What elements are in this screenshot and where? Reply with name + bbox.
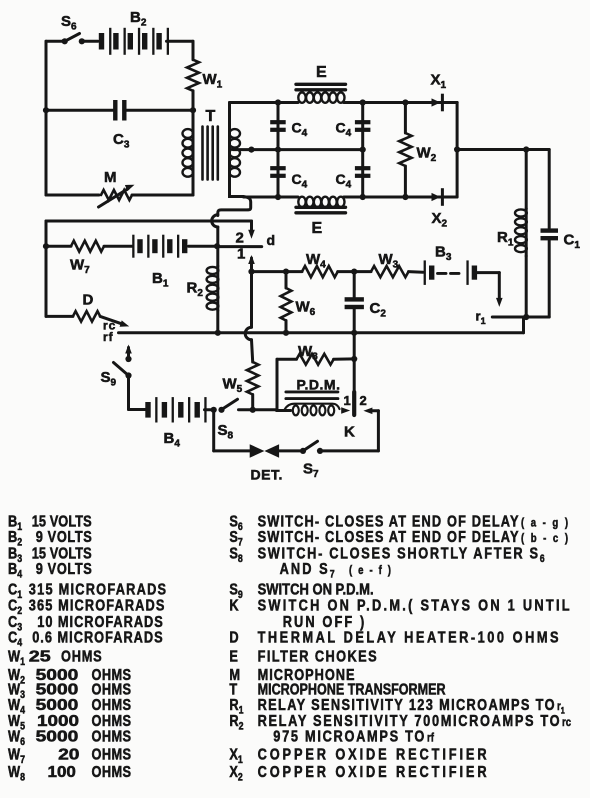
svg-text:P.D.M.: P.D.M. [297,377,341,393]
svg-text:D: D [229,629,238,647]
svg-text:0.6 MICROFARADS: 0.6 MICROFARADS [32,629,163,647]
svg-text:M: M [104,169,117,186]
svg-text:E: E [312,220,323,237]
svg-text:2: 2 [236,230,244,247]
svg-text:OHMS: OHMS [61,648,102,666]
svg-text:1: 1 [237,246,245,263]
svg-text:5000: 5000 [36,728,79,746]
svg-text:rf: rf [103,330,114,344]
svg-text:DET.: DET. [251,467,283,483]
svg-text:K: K [344,424,355,441]
svg-text:AND S7: AND S7 [280,561,335,581]
svg-text:E: E [316,64,327,81]
svg-text:975 MICROAMPS TO: 975 MICROAMPS TO [273,728,424,746]
svg-text:THERMAL DELAY HEATER-100 OH: THERMAL DELAY HEATER-100 OHMS [258,629,559,647]
svg-text:9 VOLTS: 9 VOLTS [36,529,92,547]
svg-text:FILTER CHOKES: FILTER CHOKES [258,648,377,666]
svg-text:rc: rc [562,716,571,729]
svg-text:D: D [83,292,94,309]
svg-text:365 MICROFARADS: 365 MICROFARADS [29,597,165,615]
svg-text:SWITCH ON P.D.M.: SWITCH ON P.D.M. [258,581,374,599]
svg-text:20: 20 [58,746,79,764]
svg-text:OHMS: OHMS [92,728,132,746]
svg-text:E: E [229,648,238,666]
svg-text:T: T [206,108,216,125]
svg-text:d: d [267,232,276,248]
svg-text:2: 2 [360,393,367,408]
svg-text:9 VOLTS: 9 VOLTS [36,561,92,579]
svg-text:K: K [229,597,239,615]
svg-text:rf: rf [427,731,434,744]
svg-text:315 MICROFARADS: 315 MICROFARADS [29,581,167,599]
svg-text:OHMS: OHMS [92,746,132,764]
svg-text:1: 1 [344,393,351,408]
svg-text:25: 25 [29,648,51,666]
svg-text:SWITCH- CLOSES AT END OF D: SWITCH- CLOSES AT END OF DELAY [258,529,519,547]
svg-text:OHMS: OHMS [92,764,132,782]
svg-text:100: 100 [48,764,76,782]
